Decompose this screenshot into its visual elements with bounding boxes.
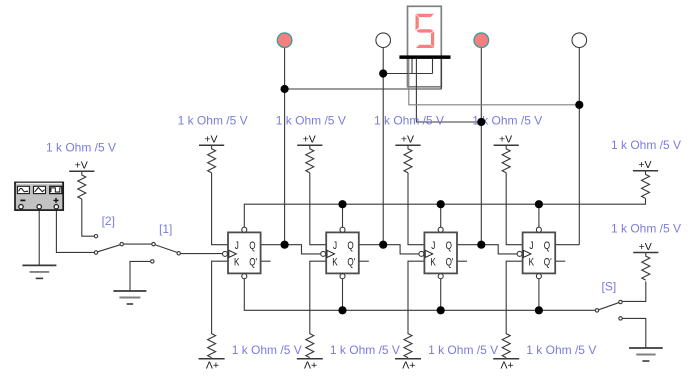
svg-text:1 k Ohm /5 V: 1 k Ohm /5 V — [330, 343, 400, 357]
node D — [575, 101, 583, 109]
resistor R7 (1 k Ohm) pull on K of U2 — [306, 331, 314, 358]
wire probe X2 vertical down to Q of U2 — [382, 47, 384, 244]
svg-text:K: K — [430, 257, 436, 270]
wire probe X3 vertical down to Q of U3 — [480, 47, 482, 244]
svg-text:K: K — [529, 257, 535, 270]
power +V supply above resistor R4 — [494, 144, 519, 146]
wire clear bus (bottom) to switch [S] — [244, 279, 595, 311]
wire probe X1 vertical down to Q of U1 — [284, 47, 286, 244]
wire switch [S] lower contact to ground — [623, 318, 646, 348]
svg-text:+V: +V — [204, 134, 217, 146]
junction clear U3 — [437, 306, 445, 314]
svg-text:Q: Q — [249, 240, 256, 253]
svg-text:Q: Q — [347, 240, 354, 253]
wire +V resistor to J input of U4 — [506, 173, 522, 245]
seven-segment digit 5 segment g — [416, 29, 433, 32]
wire display pin to node C (probe X3 net) — [416, 59, 481, 123]
probe X4 — [572, 33, 587, 48]
resistor R8 (1 k Ohm) pull on K of U3 — [404, 331, 412, 358]
svg-text:Q: Q — [446, 240, 453, 253]
svg-text:+V: +V — [500, 359, 513, 371]
seven-segment digit 5 segment c — [431, 32, 434, 48]
wire switch [S] upper contact to pull-up resistor — [623, 282, 646, 302]
wire +V resistor R5 to switch [2] upper contact — [82, 199, 94, 236]
svg-text:+V: +V — [402, 359, 415, 371]
svg-text:[1]: [1] — [159, 222, 172, 236]
wire Q of U1 to clock of U2 — [285, 245, 321, 254]
switch [2] common terminal — [120, 242, 123, 245]
wire display pins U-loop to node B (probe X2 net) — [383, 59, 432, 74]
power +V supply above resistor R10 — [633, 170, 658, 172]
wire Q of U2 to clock of U3 — [383, 245, 419, 254]
JK flip-flop U2 — [321, 227, 359, 279]
wire clear pin of U4 to bottom bus — [538, 279, 540, 311]
node Q2 — [379, 241, 387, 249]
power +V supply (flipped) below resistor R6 — [199, 358, 225, 360]
svg-text:1 k Ohm /5 V: 1 k Ohm /5 V — [178, 113, 248, 127]
probe X3 — [474, 33, 489, 48]
seven-segment digit 5 segment a — [416, 14, 434, 17]
wire Q output of U2 — [359, 244, 383, 246]
power +V supply above resistor R3 — [395, 144, 420, 146]
resistor R11 (1 k Ohm) clear bus pull-up — [642, 253, 650, 280]
switch [1] output terminal to clock — [177, 252, 180, 255]
svg-text:1 k Ohm /5 V: 1 k Ohm /5 V — [611, 138, 681, 152]
wire display pin to node D (probe X4 net) — [409, 59, 580, 105]
wire Q output of U3 — [457, 244, 481, 246]
probe X2 — [376, 33, 391, 48]
switch [2] contact from FG — [94, 251, 97, 254]
wire preset bus (top) with pull-up resistor feed — [244, 198, 645, 227]
power +V supply above resistor R11 — [633, 252, 658, 254]
wire Q output of U1 — [261, 244, 285, 246]
svg-text:+V: +V — [304, 359, 317, 371]
probe X1 — [277, 33, 292, 48]
seven-segment display pin bar — [399, 55, 450, 59]
svg-text:1 k Ohm /5 V: 1 k Ohm /5 V — [46, 141, 116, 155]
resistor R4 (1 k Ohm) pull-up to J of U4 — [502, 146, 510, 173]
switch [2] contact from +V resistor — [94, 235, 97, 238]
resistor R2 (1 k Ohm) pull-up to J of U2 — [306, 146, 314, 173]
node A — [281, 85, 289, 93]
ground symbol below switch [1] — [113, 290, 146, 292]
svg-text:+V: +V — [639, 241, 652, 253]
function generator XFG1 — [15, 182, 63, 210]
svg-text:1 k Ohm /5 V: 1 k Ohm /5 V — [232, 343, 302, 357]
svg-text:1 k Ohm /5 V: 1 k Ohm /5 V — [374, 113, 444, 127]
switch [2] arm — [98, 245, 120, 252]
JK flip-flop U3 — [419, 227, 457, 279]
resistor R6 (1 k Ohm) pull on K of U1 — [208, 331, 216, 358]
svg-text:1 k Ohm /5 V: 1 k Ohm /5 V — [276, 113, 346, 127]
svg-text:+V: +V — [206, 359, 219, 371]
seven-segment display U5 body — [408, 6, 442, 87]
svg-text:[2]: [2] — [102, 214, 115, 228]
wire FG + terminal to switch [2] — [56, 210, 94, 252]
svg-text:Q': Q' — [249, 257, 257, 270]
svg-text:1 k Ohm /5 V: 1 k Ohm /5 V — [611, 222, 681, 236]
node Q3 — [477, 241, 485, 249]
switch [1] ground contact — [151, 260, 154, 263]
node Q1 — [281, 241, 289, 249]
switch [1] input terminal — [152, 242, 155, 245]
wire display pin to node A (probe X1 net) — [285, 59, 442, 90]
junction clear U2 — [338, 306, 346, 314]
wire Q’ stub of U2 — [359, 260, 369, 262]
resistor R10 (1 k Ohm) preset bus pull-up — [642, 171, 650, 198]
wire +V resistor to J input of U3 — [408, 173, 424, 245]
wire K input of U2 to lower resistor — [310, 261, 326, 330]
junction clear U4 — [535, 306, 543, 314]
junction preset U4 — [535, 200, 543, 208]
svg-text:+V: +V — [303, 134, 316, 146]
wire +V resistor to J input of U1 — [212, 173, 228, 245]
resistor R5 (1 k Ohm) near function generator — [78, 172, 86, 199]
junction preset U2 — [338, 200, 346, 208]
JK flip-flop U1 — [223, 227, 261, 279]
svg-text:+V: +V — [401, 134, 414, 146]
svg-text:+V: +V — [638, 159, 651, 171]
JK flip-flop U4 — [517, 227, 555, 279]
power +V supply (flipped) below resistor R9 — [493, 358, 519, 360]
svg-text:+V: +V — [499, 134, 512, 146]
node B — [379, 69, 387, 77]
svg-text:J: J — [431, 240, 435, 253]
wire Q’ stub of U1 — [261, 260, 271, 262]
wire switch [2] common to switch [1] — [124, 243, 152, 245]
svg-text:[S]: [S] — [602, 279, 617, 293]
power +V supply above resistor R5 — [69, 170, 94, 172]
wire Q’ stub of U3 — [457, 260, 467, 262]
svg-text:+V: +V — [75, 160, 88, 172]
svg-text:Q': Q' — [446, 257, 454, 270]
svg-text:Q': Q' — [544, 257, 552, 270]
svg-text:J: J — [235, 240, 239, 253]
svg-text:Q': Q' — [347, 257, 355, 270]
svg-text:Q: Q — [544, 240, 551, 253]
switch [S] pivot terminal — [595, 309, 598, 312]
power +V supply above resistor R2 — [297, 144, 322, 146]
node C — [477, 118, 485, 126]
wire clear pin of U3 to bottom bus — [440, 279, 442, 311]
power +V supply above resistor R1 — [199, 144, 224, 146]
wire Q’ stub of U4 — [555, 260, 565, 262]
switch [S] upper contact to +V — [619, 300, 622, 303]
svg-text:J: J — [333, 240, 337, 253]
wire switch [1] lower contact to ground — [130, 261, 150, 291]
wire preset pin of U4 to top bus — [538, 204, 540, 227]
ground symbol at switch [S] — [629, 347, 663, 349]
power +V supply (flipped) below resistor R8 — [395, 358, 421, 360]
svg-text:J: J — [529, 240, 533, 253]
wire K input of U1 to lower resistor — [212, 261, 228, 330]
wire K input of U4 to lower resistor — [506, 261, 522, 330]
seven-segment digit 5 segment f — [416, 14, 419, 30]
junction preset U3 — [437, 200, 445, 208]
svg-text:K: K — [332, 257, 338, 270]
switch [1] arm — [155, 245, 177, 253]
resistor R3 (1 k Ohm) pull-up to J of U3 — [404, 146, 412, 173]
svg-text:1 k Ohm /5 V: 1 k Ohm /5 V — [526, 343, 596, 357]
seven-segment digit 5 segment d — [416, 45, 434, 48]
wire +V resistor to J input of U2 — [310, 173, 326, 245]
wire FG negative/ground terminal down — [38, 210, 40, 265]
resistor R1 (1 k Ohm) pull-up to J of U1 — [208, 146, 216, 173]
switch [S] lower contact to ground — [619, 317, 622, 320]
power +V supply (flipped) below resistor R7 — [297, 358, 323, 360]
wire K input of U3 to lower resistor — [408, 261, 424, 330]
switch [S] arm — [599, 303, 619, 310]
wire preset pin of U3 to top bus — [440, 204, 442, 227]
svg-text:K: K — [234, 257, 240, 270]
svg-text:1 k Ohm /5 V: 1 k Ohm /5 V — [428, 343, 498, 357]
wire switch [1] to clock of U1 — [181, 253, 223, 255]
resistor R9 (1 k Ohm) pull on K of U4 — [502, 331, 510, 358]
wire preset pin of U2 to top bus — [342, 204, 344, 227]
wire Q output of U4 — [555, 244, 579, 246]
wire Q of U3 to clock of U4 — [481, 245, 517, 254]
wire clear pin of U2 to bottom bus — [342, 279, 344, 311]
ground symbol at function generator — [22, 264, 56, 266]
wire probe X4 vertical down to Q of U4 — [578, 47, 580, 244]
